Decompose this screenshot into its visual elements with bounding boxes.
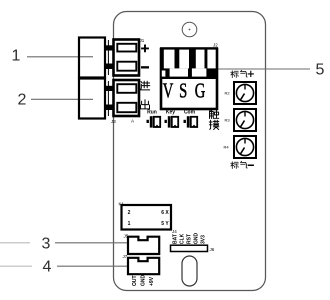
svg-text:GND: GND [194,233,200,245]
svg-text:RST: RST [187,234,193,244]
svg-text:CLK: CLK [180,233,186,244]
svg-text:Com: Com [184,110,196,116]
pin label 进 [141,81,150,90]
svg-text:Run: Run [147,110,157,116]
svg-text:J6: J6 [210,247,215,252]
svg-text:4: 4 [43,259,52,276]
connector J6 [171,245,208,251]
connector J5 [128,237,159,254]
wire leader 1 [27,56,93,58]
LED D2 [165,116,179,127]
svg-text:J2: J2 [213,43,218,48]
svg-text:K1: K1 [119,202,125,207]
svg-text:Key: Key [166,110,175,116]
svg-text:J7: J7 [123,254,128,259]
wire leader 3 [55,242,128,244]
svg-text:2: 2 [128,210,131,216]
svg-text:R2: R2 [224,91,230,96]
net label 标气- [231,161,254,168]
connector J7 [128,258,159,274]
svg-text:S: S [179,79,187,102]
svg-text:J3: J3 [111,119,116,124]
wire leader 2 [31,98,93,100]
svg-text:J4: J4 [172,229,177,234]
board outline [114,12,266,291]
slot hole [182,256,197,286]
svg-text:5: 5 [316,62,325,79]
mounting hole [182,22,197,37]
node label 触摸 [210,110,219,119]
connector U1 VSG [160,47,218,109]
svg-text:OUT: OUT [132,275,138,286]
svg-text:3V3: 3V3 [201,235,207,244]
svg-text:5 Y: 5 Y [161,221,169,227]
LED D3 [184,116,198,127]
terminal block 2 body [79,79,139,119]
svg-text:+9V: +9V [149,276,155,286]
svg-text:BAT: BAT [173,234,179,244]
relay K1 [122,205,172,230]
LED D1 [147,116,161,127]
potentiometer W1 [234,82,256,104]
svg-text:6 X: 6 X [161,210,169,216]
svg-text:V: V [163,79,174,102]
svg-text:1: 1 [128,221,131,227]
svg-text:R4: R4 [223,145,229,150]
svg-text:J1: J1 [140,38,145,43]
wire leader 5 [215,68,310,70]
terminal block 1 body [79,38,139,78]
pin label - [141,66,149,68]
svg-text:2: 2 [18,92,27,109]
svg-text:3: 3 [42,235,51,252]
potentiometer W2 [234,109,256,131]
svg-text:R3: R3 [224,118,230,123]
potentiometer W3 [234,136,256,158]
svg-text:1: 1 [12,48,21,65]
svg-text:J5: J5 [124,234,129,239]
svg-text:G: G [195,79,206,102]
pin label + [141,45,149,53]
net label 标气+ [231,70,254,77]
svg-text:A: A [131,119,134,124]
svg-text:GND: GND [141,275,147,287]
wire leader 4 [57,265,128,267]
pin label 出 [141,100,150,109]
